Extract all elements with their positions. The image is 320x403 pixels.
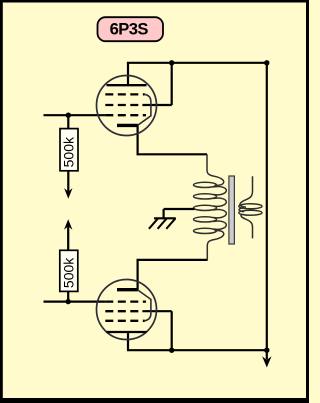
- wire screen V2: [142, 311, 171, 350]
- wire cathode V1 to transformer: [138, 125, 207, 154]
- transformer secondary entry: [240, 176, 253, 207]
- svg-text:6P3S: 6P3S: [110, 20, 149, 39]
- tube V1 grid 3 row: [105, 114, 146, 116]
- tube V2 cathode: [117, 288, 138, 291]
- transformer primary arc 1-2: [213, 187, 226, 195]
- tube V1 beam plates: [138, 94, 151, 125]
- wire top rail: [127, 62, 267, 64]
- wire cathode V2 to transformer: [138, 260, 208, 290]
- tube V2 beam plates: [138, 290, 151, 321]
- transformer primary arc 3-4: [213, 210, 226, 218]
- tube V2 envelope: [97, 280, 157, 340]
- junction dot grid V1 / R1: [66, 113, 71, 118]
- transformer primary arc 2-3: [213, 198, 226, 206]
- tube V1 plate: [107, 84, 147, 86]
- transformer secondary arc: [239, 208, 244, 212]
- resistor R1 500k: [60, 129, 78, 171]
- wire R2 top arrow shaft: [67, 226, 69, 251]
- wire grid V2: [44, 301, 106, 303]
- tube V1 grid 2 row: [105, 104, 138, 106]
- junction dot bottom screen: [169, 348, 174, 353]
- wire center tap: [164, 209, 195, 218]
- wire R2 bottom: [67, 291, 69, 301]
- wire screen V1: [142, 63, 171, 105]
- transformer primary entry: [207, 154, 224, 185]
- wire plate V1 to top: [127, 63, 129, 85]
- border frame: [0, 0, 309, 3]
- wire plate V2 to bottom: [127, 332, 129, 350]
- resistor R2 500k: [60, 250, 78, 291]
- tube V1 cathode: [117, 124, 138, 127]
- tube V2 plate: [107, 331, 147, 333]
- wire R1 top: [67, 115, 69, 128]
- svg-text:500k: 500k: [60, 136, 76, 167]
- tube V2 grid 2 row: [105, 310, 138, 312]
- transformer secondary turn 2: [239, 210, 262, 215]
- wire right rail: [266, 63, 268, 350]
- transformer primary turn 3: [194, 205, 217, 210]
- wire bottom rail: [127, 349, 267, 351]
- arrow up R2: [64, 219, 72, 230]
- transformer secondary turn 1: [239, 204, 262, 209]
- transformer core: [229, 176, 235, 244]
- transformer primary turn 2: [194, 194, 217, 199]
- tube V2 grid 3 row: [105, 320, 145, 322]
- transformer primary turn 1: [194, 182, 217, 187]
- junction dot bottom right corner: [264, 348, 269, 353]
- tube V1 envelope: [97, 76, 157, 136]
- transformer primary turn 4: [194, 217, 217, 222]
- arrow down R1: [64, 188, 72, 199]
- junction dot top screen: [169, 60, 174, 65]
- label 6P3S: [98, 17, 164, 41]
- transformer primary exit: [207, 230, 223, 259]
- tube V2 grid 1 row: [105, 300, 146, 302]
- junction dot grid V2 / R2: [66, 299, 71, 304]
- svg-text:500k: 500k: [60, 257, 76, 288]
- wire R1 bottom arrow shaft: [67, 171, 69, 193]
- junction dot top right corner: [264, 60, 269, 65]
- tube V1 grid 1 row: [105, 93, 145, 95]
- transformer primary arc 4-5: [213, 221, 226, 229]
- ground: [154, 217, 176, 219]
- wire grid V1: [44, 114, 106, 116]
- arrow down right rail: [266, 350, 268, 359]
- transformer secondary exit: [241, 214, 252, 238]
- transformer primary turn 5: [194, 228, 217, 233]
